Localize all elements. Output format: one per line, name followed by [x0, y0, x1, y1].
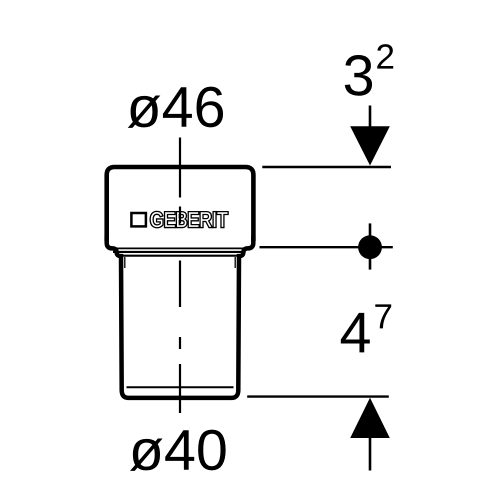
pipe inner edge right: [234, 257, 236, 268]
dot marker: [358, 235, 382, 259]
dimension label 4: [341, 313, 370, 353]
pipe inner edge left: [124, 257, 126, 268]
dot marker vertical line: [369, 223, 372, 269]
down arrow stub: [369, 106, 372, 129]
bottom inner chamfer line: [127, 386, 234, 388]
sleeve body outline (transition steps, pipe walls, bottom): [107, 236, 254, 398]
top extension line: [262, 166, 391, 168]
dimension label ø40: [130, 430, 226, 471]
dimension label 3: [345, 55, 372, 96]
collar rim line 1: [111, 247, 246, 249]
superscript 2: [377, 44, 393, 68]
dimension label ø46: [128, 87, 223, 128]
up arrow stub: [369, 437, 372, 471]
middle extension line: [260, 246, 393, 248]
up arrowhead: [350, 398, 390, 438]
centerline (dash-dot): [179, 138, 181, 414]
collar rim line 3: [118, 255, 240, 257]
bottom extension line: [247, 395, 389, 397]
Geberit logo text: [151, 212, 228, 227]
superscript 7: [375, 304, 391, 328]
down arrowhead: [350, 126, 390, 165]
Geberit logo square: [131, 213, 146, 226]
sleeve collar outline: [107, 167, 254, 241]
collar rim line 2: [113, 251, 244, 253]
